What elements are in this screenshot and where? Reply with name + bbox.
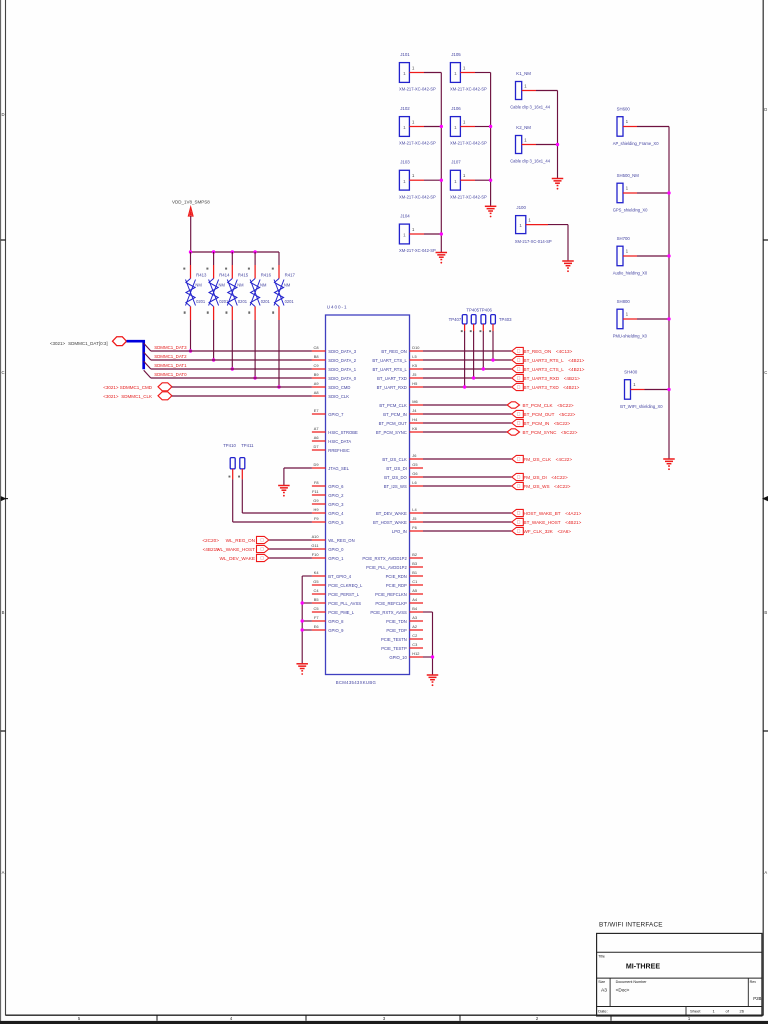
svg-text:BT_PCM_IN: BT_PCM_IN bbox=[383, 412, 407, 417]
testpoint TP410 bbox=[223, 443, 236, 479]
svg-text:SDIO_DATA_3: SDIO_DATA_3 bbox=[328, 349, 356, 354]
off-page connector BT_UART3_TXD <4B21> bbox=[512, 383, 580, 390]
border bottom numbers and ticks bbox=[78, 1015, 691, 1021]
ground below J104 bbox=[436, 253, 448, 264]
border zone letters and ticks left bbox=[1, 112, 8, 875]
svg-text:SDMMC1_DAT1: SDMMC1_DAT1 bbox=[154, 363, 187, 368]
svg-text:VDD_1V8_SMPS8: VDD_1V8_SMPS8 bbox=[172, 200, 210, 205]
wire R414 to net row bbox=[212, 320, 215, 362]
pin E6 GPIO_9 (left) bbox=[312, 624, 344, 633]
off-page connector BT_UART3_RTS_L <4B21> bbox=[512, 356, 585, 363]
svg-text:E7: E7 bbox=[314, 408, 319, 413]
svg-text:L6: L6 bbox=[412, 480, 416, 485]
wire column SH parts to ground bbox=[667, 127, 670, 459]
off-page connector BT_UART3_RXD <4B21> bbox=[512, 374, 580, 381]
connector K2_NM bbox=[510, 125, 557, 164]
svg-text:0201: 0201 bbox=[285, 299, 295, 304]
svg-text:BT_WIFI_shielding_X0: BT_WIFI_shielding_X0 bbox=[620, 404, 663, 409]
svg-text:BT_UART_RXD: BT_UART_RXD bbox=[377, 385, 407, 390]
svg-text:SH400: SH400 bbox=[624, 369, 638, 374]
connector J102 bbox=[399, 106, 441, 146]
pin A10 WL_REG_ON (left) bbox=[312, 534, 355, 543]
resistor R416 NM 0201 bbox=[248, 252, 272, 320]
svg-text:NM: NM bbox=[237, 283, 244, 288]
svg-text:C4: C4 bbox=[314, 588, 320, 593]
svg-text:TP410: TP410 bbox=[223, 443, 236, 448]
svg-text:J100: J100 bbox=[516, 205, 526, 210]
svg-text:Rev: Rev bbox=[750, 980, 757, 984]
svg-text:B5: B5 bbox=[314, 597, 319, 602]
svg-text:BT_I2S_CLK: BT_I2S_CLK bbox=[382, 457, 407, 462]
wire net BT_WAKE_HOST bbox=[423, 521, 512, 523]
pin B8 SDIO_DATA_2 (left) bbox=[312, 354, 357, 363]
svg-text:R417: R417 bbox=[285, 273, 296, 278]
pin J5 BT_UART_TXD (right) bbox=[377, 372, 423, 381]
svg-text:L5: L5 bbox=[412, 354, 416, 359]
svg-text:H4: H4 bbox=[412, 417, 418, 422]
wire net BT_REG_ON bbox=[423, 350, 512, 352]
svg-text:D7: D7 bbox=[314, 444, 319, 449]
svg-text:GPIO_3: GPIO_3 bbox=[328, 502, 344, 507]
pin H12 GPIO_10 (right) bbox=[389, 651, 423, 660]
pin G9 GPIO_3 (left) bbox=[312, 498, 344, 507]
svg-text:A9: A9 bbox=[314, 381, 319, 386]
wire TP411 to GPIO_4 bbox=[242, 479, 312, 513]
svg-text:XM-217-XC-042-SP: XM-217-XC-042-SP bbox=[450, 194, 487, 199]
testpoint TP405 bbox=[480, 315, 486, 333]
wire net BT_UART3_CTS_L bbox=[423, 368, 512, 370]
svg-text:PCIE_CLKREQ_L: PCIE_CLKREQ_L bbox=[328, 583, 363, 588]
shield SH600 bbox=[613, 106, 669, 146]
off-page connector WL_WAKE_HOST bbox=[203, 545, 269, 552]
pin A5 PCIE_REFCLKN (right) bbox=[375, 588, 423, 597]
svg-text:XM-217-XC-014-SP: XM-217-XC-014-SP bbox=[515, 239, 552, 244]
pin A6 HSIC_DATA (left) bbox=[312, 435, 351, 444]
svg-text:BT_I2S_WS: BT_I2S_WS bbox=[384, 484, 407, 489]
title block bbox=[597, 922, 762, 1017]
svg-text:A7: A7 bbox=[314, 426, 319, 431]
svg-text:<3021>: <3021> bbox=[103, 385, 119, 390]
resistor R413 NM 0201 bbox=[183, 252, 207, 320]
off-page connector SDMMC1_DAT[0:3] bbox=[50, 337, 127, 346]
off-page connector WL_DEV_WAKE bbox=[219, 554, 268, 561]
off-page connector BT_PCM_SYNC <5C22> bbox=[507, 429, 578, 435]
svg-text:XM-217-XC-042-SP: XM-217-XC-042-SP bbox=[450, 87, 487, 92]
svg-text:G9: G9 bbox=[313, 498, 318, 503]
svg-text:Title: Title bbox=[598, 955, 605, 959]
pin D9 JTAG_SEL (left) bbox=[312, 462, 350, 471]
svg-text:GPS_shielding_X0: GPS_shielding_X0 bbox=[613, 208, 648, 213]
wire column K1-K2 to ground bbox=[556, 91, 559, 179]
svg-text:Size: Size bbox=[598, 980, 605, 984]
wire TP406 to row bbox=[472, 331, 475, 380]
pin C8 SDIO_DATA_3 (left) bbox=[312, 345, 357, 354]
pin L6 BT_I2S_WS (right) bbox=[384, 480, 423, 489]
svg-text:B4: B4 bbox=[412, 606, 418, 611]
svg-text:GPIO_6: GPIO_6 bbox=[328, 484, 344, 489]
pin A4 PCIE_REFCLKP (right) bbox=[375, 597, 423, 606]
pin G5 BT_I2S_DI (right) bbox=[386, 462, 423, 471]
wire net BT_UART3_RXD bbox=[423, 377, 512, 379]
svg-text:C3: C3 bbox=[412, 642, 417, 647]
ground below BT_GPIO_4 column bbox=[296, 664, 308, 675]
svg-text:K5: K5 bbox=[412, 363, 417, 368]
shield SH500_NM bbox=[613, 173, 669, 213]
svg-text:B: B bbox=[2, 610, 5, 615]
svg-text:1: 1 bbox=[403, 179, 406, 184]
svg-text:J5: J5 bbox=[412, 516, 416, 521]
svg-text:LPO_IN: LPO_IN bbox=[392, 529, 407, 534]
ground JTAG_SEL bbox=[278, 486, 290, 497]
svg-text:PCIE_RXTX_AVDD1P2: PCIE_RXTX_AVDD1P2 bbox=[362, 556, 407, 561]
svg-text:B1: B1 bbox=[412, 570, 417, 575]
resistor R415 NM 0201 bbox=[225, 252, 249, 320]
pin L4 BT_DEV_WAKE (right) bbox=[376, 507, 423, 516]
svg-text:GPIO_5: GPIO_5 bbox=[328, 520, 344, 525]
svg-text:F7: F7 bbox=[314, 615, 319, 620]
pin F8 GPIO_6 (left) bbox=[312, 480, 344, 489]
shield SH400 bbox=[620, 369, 669, 409]
svg-text:D: D bbox=[1, 112, 4, 117]
svg-text:NM: NM bbox=[195, 283, 202, 288]
pin D7 RREFHSIC (left) bbox=[312, 444, 350, 453]
pin L5 BT_UART_CTS_L (right) bbox=[372, 354, 423, 363]
svg-text:SH700: SH700 bbox=[617, 236, 631, 241]
svg-text:A: A bbox=[764, 870, 767, 875]
wire R415 to net row bbox=[231, 320, 234, 371]
svg-text:PCIE_RDP: PCIE_RDP bbox=[386, 583, 407, 588]
svg-text:BT_PCM_CLK <5C22>: BT_PCM_CLK <5C22> bbox=[523, 403, 574, 408]
svg-text:BT_PCM_SYNC <5C22>: BT_PCM_SYNC <5C22> bbox=[523, 430, 578, 435]
svg-text:SDIO_CMD: SDIO_CMD bbox=[328, 385, 350, 390]
svg-text:C2: C2 bbox=[412, 633, 417, 638]
svg-text:GPIO_9: GPIO_9 bbox=[328, 628, 344, 633]
svg-text:MI-THREE: MI-THREE bbox=[626, 963, 661, 971]
wire column J101-J104 to ground bbox=[440, 73, 443, 253]
svg-text:SDMMC1_CLK: SDMMC1_CLK bbox=[121, 394, 152, 399]
svg-text:TP407: TP407 bbox=[449, 317, 462, 322]
pin A8 SDIO_CLK (left) bbox=[312, 390, 349, 399]
svg-text:K2_NM: K2_NM bbox=[516, 125, 531, 130]
svg-text:B8: B8 bbox=[314, 354, 319, 359]
pin K4 BT_GPIO_4 (left) bbox=[312, 570, 352, 579]
pin J6 BT_I2S_CLK (right) bbox=[382, 453, 423, 462]
svg-text:J105: J105 bbox=[451, 52, 461, 57]
svg-text:TP411: TP411 bbox=[241, 443, 254, 448]
svg-text:A8: A8 bbox=[314, 390, 319, 395]
off-page connector FM_I2S_CLK <4C22> bbox=[512, 455, 573, 462]
svg-text:B2: B2 bbox=[412, 552, 417, 557]
resistor R414 NM 0201 bbox=[206, 252, 230, 320]
svg-text:RREFHSIC: RREFHSIC bbox=[328, 448, 349, 453]
svg-text:H12: H12 bbox=[412, 651, 419, 656]
svg-text:G6: G6 bbox=[412, 471, 417, 476]
svg-text:D9: D9 bbox=[314, 462, 319, 467]
pin F10 GPIO_1 (left) bbox=[312, 552, 344, 561]
ground below SH column bbox=[663, 459, 675, 470]
svg-text:BT_UART3_RTS_L <4B21>: BT_UART3_RTS_L <4B21> bbox=[524, 358, 585, 363]
pin B5 PCIE_PLL_AVSS (left) bbox=[312, 597, 361, 606]
pin H5 BT_UART_RXD (right) bbox=[377, 381, 423, 390]
pin M6 BT_PCM_CLK (right) bbox=[379, 399, 423, 408]
svg-text:0201: 0201 bbox=[196, 299, 206, 304]
svg-text:B: B bbox=[764, 610, 767, 615]
wire R416 to net row bbox=[253, 320, 256, 380]
pin C4 PCIE_PERST_L (left) bbox=[312, 588, 360, 597]
svg-text:26: 26 bbox=[740, 1008, 745, 1013]
svg-text:F8: F8 bbox=[314, 480, 319, 485]
svg-text:HOST_WAKE_BT <4A21>: HOST_WAKE_BT <4A21> bbox=[524, 511, 582, 516]
off-page connector SDMMC1_CMD bbox=[103, 383, 172, 391]
svg-text:BT_UART3_RXD <4B21>: BT_UART3_RXD <4B21> bbox=[524, 376, 581, 381]
pin K6 BT_PCM_SYNC (right) bbox=[376, 426, 423, 435]
wire BT_GPIO_4 / PCIE_PLL_AVSS / GPIO_8 / GPIO_9 to ground bbox=[301, 576, 312, 664]
svg-text:PCIE_TDN: PCIE_TDN bbox=[386, 619, 407, 624]
pin J4 BT_PCM_IN (right) bbox=[383, 408, 423, 417]
svg-text:SDIO_DATA_1: SDIO_DATA_1 bbox=[328, 367, 356, 372]
svg-text:WF_CLK_32K <2A6>: WF_CLK_32K <2A6> bbox=[524, 529, 572, 534]
svg-text:BT_UART3_TXD <4B21>: BT_UART3_TXD <4B21> bbox=[524, 385, 580, 390]
svg-text:BT_UART_CTS_L: BT_UART_CTS_L bbox=[372, 358, 407, 363]
svg-text:BT_PCM_CLK: BT_PCM_CLK bbox=[379, 403, 407, 408]
pin H4 BT_PCM_OUT (right) bbox=[379, 417, 423, 426]
wire TP405 to row bbox=[482, 331, 485, 371]
wire SDMMC1_DAT2 bbox=[151, 354, 312, 360]
svg-text:J103: J103 bbox=[400, 160, 410, 165]
wire net BT_UART3_TXD bbox=[423, 386, 512, 388]
connector K1_NM bbox=[510, 71, 557, 110]
shield SH700 bbox=[613, 236, 669, 276]
svg-text:SH600: SH600 bbox=[617, 106, 631, 111]
svg-text:<3021>: <3021> bbox=[50, 341, 66, 346]
svg-text:0201: 0201 bbox=[219, 299, 229, 304]
pin A9 SDIO_CMD (left) bbox=[312, 381, 351, 390]
pin E7 GPIO_7 (left) bbox=[312, 408, 344, 417]
svg-text:A10: A10 bbox=[312, 534, 320, 539]
svg-text:M6: M6 bbox=[412, 399, 417, 404]
svg-text:K6: K6 bbox=[412, 426, 417, 431]
svg-text:GPIO_1: GPIO_1 bbox=[328, 556, 344, 561]
svg-text:F10: F10 bbox=[312, 552, 320, 557]
svg-text:PCIE_TESTN: PCIE_TESTN bbox=[381, 637, 407, 642]
svg-text:PCIE_PME_L: PCIE_PME_L bbox=[328, 610, 355, 615]
wire VDD rail to resistors bbox=[189, 250, 279, 253]
wire net BT_PCM_CLK bbox=[423, 404, 512, 406]
svg-text:NM: NM bbox=[219, 283, 226, 288]
svg-text:GPIO_0: GPIO_0 bbox=[328, 547, 344, 552]
pin B3 PCIE_PLL_AVDD1P2 (right) bbox=[366, 561, 423, 570]
svg-text:XM-217-XC-042-SP: XM-217-XC-042-SP bbox=[399, 141, 436, 146]
svg-text:PCIE_PERST_L: PCIE_PERST_L bbox=[328, 592, 359, 597]
svg-text:B3: B3 bbox=[412, 561, 417, 566]
svg-text:XM-217-XC-042-SP: XM-217-XC-042-SP bbox=[450, 141, 487, 146]
svg-text:A5: A5 bbox=[412, 588, 417, 593]
svg-text:WL_WAKE_HOST: WL_WAKE_HOST bbox=[216, 547, 255, 552]
pin A2 PCIE_TDP (right) bbox=[386, 624, 423, 633]
svg-text:J6: J6 bbox=[412, 453, 416, 458]
svg-text:GPIO_7: GPIO_7 bbox=[328, 412, 344, 417]
testpoint TP407 bbox=[461, 315, 467, 333]
svg-text:G5: G5 bbox=[412, 462, 417, 467]
pin C3 PCIE_TESTP (right) bbox=[381, 642, 423, 651]
svg-text:C8: C8 bbox=[314, 345, 319, 350]
svg-text:SDIO_DATA_2: SDIO_DATA_2 bbox=[328, 358, 356, 363]
svg-text:J104: J104 bbox=[400, 214, 410, 219]
off-page connector SDMMC1_CLK bbox=[103, 392, 172, 400]
wire TP407 to row bbox=[463, 331, 466, 389]
pin H9 GPIO_4 (left) bbox=[312, 507, 344, 516]
svg-text:BT_UART_RTS_L: BT_UART_RTS_L bbox=[373, 367, 408, 372]
svg-text:AP_shielding_Frame_X0: AP_shielding_Frame_X0 bbox=[613, 141, 660, 146]
pin F6 LPO_IN (right) bbox=[392, 525, 423, 534]
pin B2 PCIE_RXTX_AVDD1P2 (right) bbox=[362, 552, 423, 561]
off-page connector FM_I2S_WS <4C22> bbox=[512, 482, 571, 489]
svg-text:GPIO_4: GPIO_4 bbox=[328, 511, 344, 516]
svg-text:C9: C9 bbox=[314, 363, 319, 368]
svg-text:J107: J107 bbox=[451, 160, 461, 165]
svg-text:R414: R414 bbox=[219, 273, 230, 278]
svg-text:D: D bbox=[764, 107, 767, 112]
svg-text:SDMMC1_DAT[0:3]: SDMMC1_DAT[0:3] bbox=[68, 341, 107, 346]
svg-text:HSIC_STROBE: HSIC_STROBE bbox=[328, 430, 358, 435]
pin A7 HSIC_STROBE (left) bbox=[312, 426, 358, 435]
svg-text:SDIO_DATA_0: SDIO_DATA_0 bbox=[328, 376, 356, 381]
wire SDMMC1_DAT3 bbox=[151, 345, 312, 351]
svg-text:BT_PCM_SYNC: BT_PCM_SYNC bbox=[376, 430, 407, 435]
wire net WL_DEV_WAKE bbox=[269, 557, 312, 559]
svg-text:PCIE_RXTX_AVSS: PCIE_RXTX_AVSS bbox=[370, 610, 407, 615]
off-page connector HOST_WAKE_BT <4A21> bbox=[512, 509, 582, 516]
wire net WL_REG_ON bbox=[269, 539, 312, 541]
svg-text:BT_I2S_DI: BT_I2S_DI bbox=[386, 466, 406, 471]
wire net BT_UART3_RTS_L bbox=[423, 359, 512, 361]
svg-text:D10: D10 bbox=[412, 345, 420, 350]
svg-text:NM: NM bbox=[260, 283, 267, 288]
wire net FM_I2S_WS bbox=[423, 485, 512, 487]
connector J103 bbox=[399, 160, 441, 200]
svg-text:A3: A3 bbox=[412, 615, 417, 620]
svg-text:BT_UART3_CTS_L <4B21>: BT_UART3_CTS_L <4B21> bbox=[524, 367, 585, 372]
pin B1 PCIE_RDN (right) bbox=[386, 570, 423, 579]
shield SH800 bbox=[613, 299, 669, 339]
svg-text:WL_DEV_WAKE: WL_DEV_WAKE bbox=[219, 556, 255, 561]
svg-text:PCIE_REFCLKN: PCIE_REFCLKN bbox=[375, 592, 407, 597]
svg-text:1: 1 bbox=[403, 71, 406, 76]
svg-text:XM-217-XC-042-SP: XM-217-XC-042-SP bbox=[399, 248, 436, 253]
svg-text:SDMMC1_DAT2: SDMMC1_DAT2 bbox=[154, 354, 187, 359]
bus tap to SDMMC1_DAT0 bbox=[144, 370, 151, 378]
wire net WL_WAKE_HOST bbox=[269, 548, 312, 550]
svg-text:R415: R415 bbox=[238, 273, 249, 278]
connector J107 bbox=[450, 160, 491, 200]
svg-text:A6: A6 bbox=[314, 435, 319, 440]
svg-text:1: 1 bbox=[454, 71, 457, 76]
wire net BT_PCM_OUT bbox=[423, 413, 512, 415]
svg-text:G5: G5 bbox=[313, 579, 318, 584]
svg-text:F6: F6 bbox=[412, 525, 417, 530]
testpoint labels TP405 TP406 TP407 TP403 bbox=[449, 308, 513, 322]
svg-text:H5: H5 bbox=[412, 381, 417, 386]
svg-text:SDMMC1_DAT0: SDMMC1_DAT0 bbox=[154, 372, 187, 377]
svg-text:H9: H9 bbox=[314, 507, 319, 512]
wire SDMMC1_CMD bbox=[172, 386, 312, 388]
svg-text:BT_DEV_WAKE: BT_DEV_WAKE bbox=[376, 511, 407, 516]
svg-text:BT_HOST_WAKE: BT_HOST_WAKE bbox=[373, 520, 407, 525]
wire SDMMC1_CLK bbox=[172, 395, 312, 397]
svg-text:SDMMC1_DAT3: SDMMC1_DAT3 bbox=[154, 345, 187, 350]
wire net FM_I2S_CLK bbox=[423, 458, 512, 460]
svg-text:TP403: TP403 bbox=[499, 317, 512, 322]
wire PCIE_RXTX_AVSS / GPIO_10 to ground bbox=[423, 612, 434, 675]
connector J104 bbox=[399, 214, 441, 254]
svg-text:1: 1 bbox=[519, 223, 522, 228]
off-page connector BT_WAKE_HOST <4B21> bbox=[512, 518, 582, 525]
svg-text:PCIE_TDP: PCIE_TDP bbox=[386, 628, 407, 633]
svg-text:<3021>: <3021> bbox=[103, 394, 119, 399]
bus tap to SDMMC1_DAT1 bbox=[144, 361, 151, 369]
svg-text:Date:: Date: bbox=[598, 1008, 608, 1013]
svg-text:J102: J102 bbox=[400, 106, 410, 111]
svg-text:A4: A4 bbox=[412, 597, 418, 602]
svg-text:BT_GPIO_4: BT_GPIO_4 bbox=[328, 574, 351, 579]
svg-text:GPIO_8: GPIO_8 bbox=[328, 619, 344, 624]
pin F11 GPIO_2 (left) bbox=[312, 489, 344, 498]
svg-text:A3: A3 bbox=[601, 988, 607, 994]
svg-text:XM-217-XC-042-SP: XM-217-XC-042-SP bbox=[399, 87, 436, 92]
svg-text:FM_I2S_WS <4C22>: FM_I2S_WS <4C22> bbox=[524, 484, 571, 489]
off-page connector FM_I2S_DI <4C22> bbox=[512, 473, 568, 480]
off-page connector BT_UART3_CTS_L <4B21> bbox=[512, 365, 585, 372]
border zone letters and ticks right bbox=[762, 107, 768, 875]
svg-text:Sheet: Sheet bbox=[690, 1008, 701, 1013]
svg-text:HSIC_DATA: HSIC_DATA bbox=[328, 439, 351, 444]
ground below J100 bbox=[562, 261, 574, 272]
pin B4 PCIE_RXTX_AVSS (right) bbox=[370, 606, 423, 615]
off-page connector WL_REG_ON bbox=[202, 536, 268, 543]
svg-text:JTAG_SEL: JTAG_SEL bbox=[328, 466, 349, 471]
svg-text:K4: K4 bbox=[314, 570, 320, 575]
pin C9 SDIO_DATA_1 (left) bbox=[312, 363, 357, 372]
svg-text:Audio_hielding_X0: Audio_hielding_X0 bbox=[613, 271, 648, 276]
svg-text:BT_PCM_IN <5C22>: BT_PCM_IN <5C22> bbox=[524, 421, 571, 426]
svg-text:0201: 0201 bbox=[238, 299, 248, 304]
svg-text:<4B21>: <4B21> bbox=[203, 547, 220, 552]
testpoint TP406 bbox=[470, 315, 476, 333]
svg-text:1: 1 bbox=[403, 125, 406, 130]
bus tap to SDMMC1_DAT2 bbox=[144, 352, 151, 360]
svg-text:C: C bbox=[764, 370, 767, 375]
bus tap to SDMMC1_DAT3 bbox=[144, 343, 151, 351]
wire JTAG_SEL to ground bbox=[284, 468, 312, 485]
svg-text:Cable clip 3_16x1_44: Cable clip 3_16x1_44 bbox=[510, 159, 551, 164]
off-page connector BT_PCM_OUT <5C22> bbox=[512, 410, 576, 417]
pin J5 BT_HOST_WAKE (right) bbox=[373, 516, 423, 525]
testpoint TP403 bbox=[489, 315, 495, 333]
svg-text:A: A bbox=[2, 870, 5, 875]
svg-text:C1: C1 bbox=[412, 579, 417, 584]
wire SDMMC1_DAT1 bbox=[151, 363, 312, 369]
svg-text:PCIE_RDN: PCIE_RDN bbox=[386, 574, 407, 579]
svg-text:PCIE_PLL_AVDD1P2: PCIE_PLL_AVDD1P2 bbox=[366, 565, 407, 570]
wire net BT_PCM_IN bbox=[423, 422, 512, 424]
connector J106 bbox=[450, 106, 491, 146]
pin G6 BT_I2S_DO (right) bbox=[384, 471, 423, 480]
svg-text:C5: C5 bbox=[314, 606, 319, 611]
svg-text:B9: B9 bbox=[314, 372, 319, 377]
svg-text:0201: 0201 bbox=[261, 299, 271, 304]
svg-text:BT_REG_ON: BT_REG_ON bbox=[381, 349, 406, 354]
pin B9 SDIO_DATA_0 (left) bbox=[312, 372, 357, 381]
